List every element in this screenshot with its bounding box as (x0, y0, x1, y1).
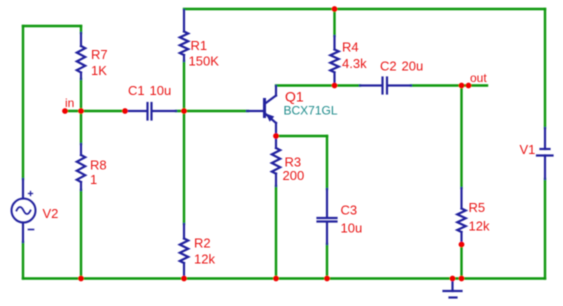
svg-text:R5: R5 (469, 200, 486, 215)
svg-text:10u: 10u (341, 221, 363, 236)
svg-text:C2: C2 (380, 59, 397, 74)
svg-text:150K: 150K (189, 54, 220, 69)
svg-text:10u: 10u (150, 83, 172, 98)
svg-text:R1: R1 (191, 38, 208, 53)
svg-text:R4: R4 (342, 40, 359, 55)
svg-text:out: out (470, 71, 487, 85)
svg-text:20u: 20u (402, 59, 424, 74)
svg-text:R7: R7 (91, 47, 108, 62)
svg-text:V1: V1 (520, 142, 536, 157)
svg-text:12k: 12k (469, 219, 490, 234)
svg-text:in: in (65, 96, 74, 110)
svg-text:R2: R2 (194, 236, 211, 251)
svg-text:Q1: Q1 (285, 89, 304, 105)
svg-text:C3: C3 (341, 203, 358, 218)
svg-text:C1: C1 (128, 83, 145, 98)
svg-text:200: 200 (283, 168, 305, 183)
svg-text:4.3k: 4.3k (342, 56, 367, 71)
svg-text:BCX71GL: BCX71GL (284, 104, 338, 118)
svg-text:V2: V2 (43, 206, 59, 221)
svg-text:12k: 12k (194, 252, 215, 267)
svg-text:1K: 1K (91, 63, 107, 78)
svg-text:1: 1 (90, 172, 97, 187)
svg-text:R8: R8 (90, 158, 107, 173)
